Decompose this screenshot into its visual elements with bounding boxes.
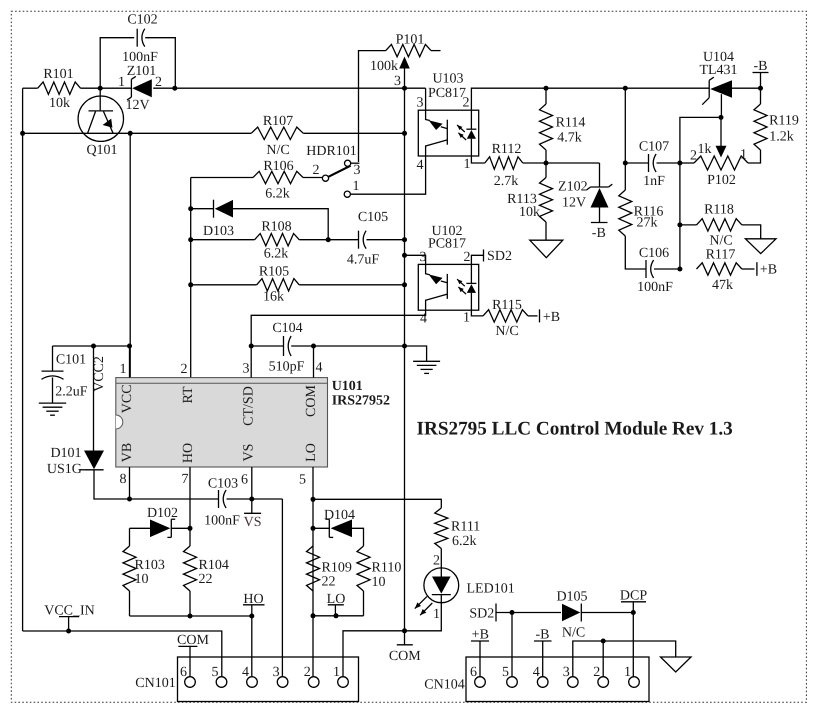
wire R119 bottom to P102 xyxy=(748,150,761,163)
wire R110 bottom lead xyxy=(363,591,365,616)
svg-text:1.2k: 1.2k xyxy=(769,130,794,145)
label U102 pin numbers xyxy=(420,250,471,327)
node junction R112/R113/R114 xyxy=(544,161,549,166)
label LED101 pin 2 xyxy=(433,554,440,569)
zener diode Z101 xyxy=(127,76,152,100)
net label COM flag (CN101 pin6) xyxy=(177,633,209,677)
svg-text:7: 7 xyxy=(182,472,189,487)
wire U103 pin2 to right bus xyxy=(471,88,709,110)
label U101 pin VS xyxy=(242,444,257,462)
wire C106 to R117 node xyxy=(654,268,680,270)
svg-text:4: 4 xyxy=(242,665,249,680)
node junction VB xyxy=(127,497,132,502)
wire VB row to C103 xyxy=(130,498,219,500)
connector CN101 pin 1 xyxy=(333,665,348,687)
svg-text:6: 6 xyxy=(241,473,248,488)
svg-text:N/C: N/C xyxy=(562,626,585,641)
wire R112 to R113 node xyxy=(523,162,600,164)
label U101 pin VB xyxy=(120,443,135,462)
connector CN101 body xyxy=(178,657,359,702)
wire CT/SD node row xyxy=(251,345,283,347)
P101 wiper arrow xyxy=(399,57,410,89)
ground (earth) below C101 xyxy=(39,403,66,415)
wire R104 bottom lead xyxy=(189,591,191,616)
svg-text:SD2: SD2 xyxy=(469,607,494,622)
wire U101 pin4 stub xyxy=(313,346,315,378)
connector HDR101 pin 2 xyxy=(322,175,328,181)
wire HDR pin1 to U103 pin4 xyxy=(350,156,425,194)
svg-text:HDR101: HDR101 xyxy=(306,144,357,159)
svg-text:R114: R114 xyxy=(556,116,586,131)
label R104 22 xyxy=(199,558,229,587)
label D104 xyxy=(324,508,355,523)
wire C103 to VS xyxy=(227,498,283,500)
wire P102 left lead xyxy=(680,162,694,164)
label D101 US1G xyxy=(47,446,82,477)
svg-text:R109: R109 xyxy=(322,561,352,576)
node junction VCC2/D101 xyxy=(91,344,96,349)
wire D102 to pin7 xyxy=(171,527,190,529)
label R115 N/C xyxy=(492,298,522,339)
svg-text:TL431: TL431 xyxy=(699,63,737,78)
node junction R104 bottom xyxy=(188,614,193,619)
wire left rail xyxy=(22,88,24,631)
svg-text:8: 8 xyxy=(120,472,127,487)
zener diode Z102 xyxy=(587,163,613,223)
wire D105 to DCP node xyxy=(581,612,633,614)
svg-text:3: 3 xyxy=(417,96,424,111)
wire R108 to C105 xyxy=(299,239,358,241)
svg-text:R101: R101 xyxy=(43,67,73,82)
svg-text:R115: R115 xyxy=(492,298,522,313)
wire RT rail vertical xyxy=(190,178,192,378)
svg-text:LO: LO xyxy=(304,443,319,462)
wire D103 row left xyxy=(191,208,214,210)
svg-text:12V: 12V xyxy=(562,196,586,211)
transistor U104 TL431 xyxy=(702,77,732,117)
capacitor C103 xyxy=(219,490,227,508)
resistor R104 xyxy=(184,546,197,591)
label R101 10k xyxy=(43,67,73,111)
svg-text:D101: D101 xyxy=(50,446,81,461)
svg-text:+B: +B xyxy=(543,310,560,325)
svg-text:CT/SD: CT/SD xyxy=(242,386,257,426)
P102 wiper arrow xyxy=(716,117,727,157)
wire D102 row left xyxy=(130,527,151,529)
node junction VCC2/pin1 xyxy=(127,344,132,349)
label Z102 12V xyxy=(558,180,588,211)
label U101 top pin numbers xyxy=(120,361,323,378)
wire COM pin row to ground xyxy=(314,346,427,361)
node junction R105 left xyxy=(188,282,193,287)
connector CN101 pin 6 xyxy=(180,665,195,687)
label U101 IRS27952 xyxy=(332,379,390,409)
svg-text:D102: D102 xyxy=(147,506,178,521)
svg-text:4.7k: 4.7k xyxy=(557,131,582,146)
wire D103 row right xyxy=(233,209,328,240)
wire LO to R111 xyxy=(313,499,441,508)
label U101 pin COM xyxy=(304,385,319,417)
svg-text:C103: C103 xyxy=(208,477,238,492)
resistor R112 xyxy=(485,157,523,169)
svg-text:5: 5 xyxy=(502,665,509,680)
svg-text:PC817: PC817 xyxy=(428,86,466,101)
label U103 pin numbers xyxy=(417,96,471,174)
resistor R111 xyxy=(435,508,448,549)
node junction C102-left/Q101 base xyxy=(98,86,103,91)
svg-text:6: 6 xyxy=(470,665,477,680)
resistor R114 xyxy=(540,104,553,150)
op-amp U103 optocoupler PC817 xyxy=(418,110,478,156)
svg-text:100k: 100k xyxy=(370,59,398,74)
svg-text:LED101: LED101 xyxy=(467,582,515,597)
svg-text:+B: +B xyxy=(760,263,777,278)
node junction bus/COM row xyxy=(402,628,407,633)
svg-text:47k: 47k xyxy=(712,278,733,293)
wire top bus left segment xyxy=(23,87,38,89)
svg-text:2: 2 xyxy=(690,149,697,164)
power flag +B right of R117 xyxy=(757,262,777,277)
connector CN101 pin 3 xyxy=(273,665,288,687)
diode D105 xyxy=(562,604,581,622)
wire D101 to VB row xyxy=(94,470,130,499)
wire R118 to chassis ground xyxy=(742,225,761,239)
svg-text:COM: COM xyxy=(304,385,319,417)
wire R103 top lead xyxy=(129,528,131,546)
resistor R106 xyxy=(253,171,303,183)
wire C101 top lead xyxy=(52,346,54,371)
capacitor C101 xyxy=(42,371,64,379)
label R112 2.7k xyxy=(492,142,522,189)
node junction P101 wiper at bus xyxy=(402,86,407,91)
label CN101 xyxy=(135,676,175,691)
wire R106 left to RT rail xyxy=(191,177,253,179)
svg-text:P101: P101 xyxy=(396,33,425,48)
resistor R115 xyxy=(483,310,528,322)
wire CN104 pin3 to ground row xyxy=(573,641,676,677)
wire HO bottom row xyxy=(130,615,252,617)
svg-text:2: 2 xyxy=(313,163,320,178)
svg-text:R108: R108 xyxy=(261,220,291,235)
transistor Q101 xyxy=(78,88,123,141)
label U102 PC817 xyxy=(428,224,466,252)
HDR101 lever xyxy=(329,166,351,177)
wire U103 pin1 to R112 xyxy=(471,156,484,163)
wire R101 to Z101 xyxy=(81,87,132,89)
svg-text:3: 3 xyxy=(273,665,280,680)
svg-text:100nF: 100nF xyxy=(204,514,240,529)
node junction C102-right xyxy=(172,86,177,91)
svg-text:R107: R107 xyxy=(263,114,293,129)
svg-text:U101: U101 xyxy=(332,379,363,394)
ground (earth) near bus xyxy=(413,361,440,373)
wire C102 loop left xyxy=(100,38,134,88)
label U104 TL431 xyxy=(699,50,737,78)
svg-text:Z102: Z102 xyxy=(558,180,588,195)
svg-text:100nF: 100nF xyxy=(122,50,158,65)
svg-text:IRS27952: IRS27952 xyxy=(332,394,390,409)
potentiometer P102 xyxy=(694,156,748,170)
svg-text:4: 4 xyxy=(417,158,424,173)
wire R116 column top xyxy=(624,88,626,190)
node junction D103 left xyxy=(188,206,193,211)
svg-text:U103: U103 xyxy=(432,72,463,87)
label U101 pin CT/SD xyxy=(242,386,257,426)
svg-text:R118: R118 xyxy=(704,203,734,218)
svg-text:1nF: 1nF xyxy=(643,174,665,189)
node junction R118 left xyxy=(677,222,682,227)
svg-text:D104: D104 xyxy=(324,508,355,523)
node junction R108 left xyxy=(188,237,193,242)
wire VS to CN101 pin3 xyxy=(281,499,283,677)
label R107 N/C xyxy=(263,114,293,158)
svg-text:6: 6 xyxy=(180,665,187,680)
op-amp U102 optocoupler PC817 xyxy=(418,264,478,310)
svg-text:1: 1 xyxy=(624,665,631,680)
wire C102 loop right xyxy=(145,38,175,88)
connector CN104 body xyxy=(466,657,649,702)
svg-text:N/C: N/C xyxy=(709,234,732,249)
svg-text:N/C: N/C xyxy=(495,324,518,339)
wire Q101 emitter row xyxy=(23,132,252,134)
connector CN101 pin 5 xyxy=(212,665,227,687)
svg-text:22: 22 xyxy=(199,572,213,587)
wire U102 pin1 to R115 xyxy=(471,310,483,316)
node junction C107 right xyxy=(677,161,682,166)
net label SD2 (CN104) xyxy=(469,604,496,622)
svg-text:C101: C101 xyxy=(56,353,86,368)
wire R105 row left xyxy=(191,284,257,286)
svg-text:3: 3 xyxy=(243,362,250,377)
wire U101 pin8 stub xyxy=(129,467,131,499)
node junction LO row xyxy=(311,497,316,502)
svg-text:1: 1 xyxy=(433,607,440,622)
resistor R109 xyxy=(307,546,320,591)
node junction VCC riser at emitter row xyxy=(128,131,133,136)
resistor R117 xyxy=(697,263,742,275)
label CN104 xyxy=(424,678,464,693)
svg-text:PC817: PC817 xyxy=(428,237,466,252)
wire C107 row left xyxy=(625,162,648,164)
label C104 510pF xyxy=(269,321,305,375)
wire R119 top stub xyxy=(760,88,762,104)
svg-text:5: 5 xyxy=(299,473,306,488)
node junction R105 at bus xyxy=(402,282,407,287)
svg-text:6.2k: 6.2k xyxy=(452,534,477,549)
svg-text:VS: VS xyxy=(244,515,262,530)
svg-text:1: 1 xyxy=(740,148,747,163)
net label VCC_IN xyxy=(44,604,95,632)
diode D104 xyxy=(325,519,352,537)
svg-text:2: 2 xyxy=(304,665,311,680)
label C102 value 100nF xyxy=(122,13,158,66)
svg-text:Z101: Z101 xyxy=(127,64,157,79)
wire R114 bottom stub xyxy=(545,150,547,163)
capacitor C102 xyxy=(137,29,145,47)
node junction D104 left xyxy=(311,526,316,531)
wire C107-right to C106-right column xyxy=(679,163,681,269)
connector CN104 pin 3 xyxy=(563,665,578,687)
label C107 1nF xyxy=(639,140,669,190)
resistor R113 xyxy=(540,178,553,223)
label U103 PC817 xyxy=(428,72,466,102)
connector CN101 pin 2 xyxy=(304,665,319,687)
svg-text:10k: 10k xyxy=(519,205,540,220)
svg-text:10k: 10k xyxy=(49,96,70,111)
svg-text:HO: HO xyxy=(181,443,196,463)
wire U102 pin3 to bus xyxy=(405,255,426,264)
label R119 1.2k xyxy=(769,114,799,145)
svg-text:CN104: CN104 xyxy=(424,678,464,693)
svg-text:VB: VB xyxy=(120,443,135,462)
svg-text:1k: 1k xyxy=(698,142,712,157)
wire R106 to HDR pin2 xyxy=(303,177,323,179)
wire R116 bottom xyxy=(625,236,645,269)
net label SD2 (U102) xyxy=(484,249,512,264)
node junction R116 top at bus xyxy=(623,86,628,91)
svg-text:1: 1 xyxy=(464,157,471,172)
svg-text:4.7uF: 4.7uF xyxy=(347,253,380,268)
LED LED101 xyxy=(415,568,459,615)
wire U102 pin4 to CT/SD xyxy=(251,310,425,346)
svg-text:C105: C105 xyxy=(358,210,388,225)
svg-text:2: 2 xyxy=(593,665,600,680)
wire P101 right stub xyxy=(431,50,441,52)
capacitor C106 xyxy=(646,260,654,278)
svg-text:1: 1 xyxy=(333,665,340,680)
svg-text:COM: COM xyxy=(389,649,421,664)
wire R115 to +B xyxy=(528,315,538,317)
svg-text:R112: R112 xyxy=(492,142,522,157)
svg-text:US1G: US1G xyxy=(47,462,82,477)
wire R108 row left xyxy=(191,239,255,241)
svg-text:Q101: Q101 xyxy=(86,143,117,158)
svg-text:C102: C102 xyxy=(127,13,157,28)
capacitor C107 xyxy=(649,154,657,172)
resistor R110 xyxy=(357,546,370,591)
wire R113 top stub xyxy=(545,163,547,178)
label HDR101 pins xyxy=(306,144,360,194)
svg-text:+B: +B xyxy=(472,628,489,643)
label U101 bottom pin numbers xyxy=(120,472,307,488)
svg-text:12V: 12V xyxy=(125,98,149,113)
wire CN104 pin5 column xyxy=(511,613,513,677)
svg-text:R104: R104 xyxy=(199,558,229,573)
node junction C107 left xyxy=(623,161,628,166)
svg-text:3: 3 xyxy=(563,665,570,680)
label R108 6.2k xyxy=(261,220,291,262)
label R116 27k xyxy=(634,205,664,231)
wire TL431 cathode to -B node xyxy=(732,87,761,89)
label R105 16k xyxy=(259,265,289,305)
wire U101 pin7 stub xyxy=(189,467,191,546)
connector CN104 pin 2 xyxy=(593,665,608,687)
label LED101 xyxy=(467,582,515,597)
label R117 47k xyxy=(706,248,736,294)
ground (open triangle) right of R118 xyxy=(745,239,776,254)
connector HDR101 pin 1 xyxy=(344,191,350,197)
svg-text:P102: P102 xyxy=(707,173,736,188)
svg-text:22: 22 xyxy=(322,575,336,590)
svg-text:1: 1 xyxy=(463,311,470,326)
label R114 4.7k xyxy=(556,116,586,146)
wire CN104 pin2 column xyxy=(602,641,604,677)
svg-text:2: 2 xyxy=(181,362,188,377)
wire R107 to bus xyxy=(303,132,404,134)
net label VS flag xyxy=(244,499,262,530)
node junction VCC_IN xyxy=(66,629,71,634)
svg-text:IRS2795 LLC Control Module Rev: IRS2795 LLC Control Module Rev 1.3 xyxy=(417,419,733,440)
connector HDR101 pin 3 xyxy=(345,160,351,166)
wire R117 to +B xyxy=(742,268,755,270)
svg-text:510pF: 510pF xyxy=(269,360,305,375)
diode D102 xyxy=(150,519,175,537)
connector CN104 pin 4 xyxy=(533,665,548,687)
label C103 100nF xyxy=(204,477,240,529)
wire C105 to bus xyxy=(367,239,405,241)
svg-text:R105: R105 xyxy=(259,265,289,280)
wire R103 bottom lead xyxy=(129,591,131,616)
wire VCC_IN row xyxy=(23,631,222,677)
label P101 100k pin 3 xyxy=(370,33,424,90)
svg-text:10: 10 xyxy=(135,572,149,587)
node junction TL431 ref xyxy=(719,115,724,120)
net label DCP xyxy=(620,589,647,613)
wire R111 to LED xyxy=(440,549,442,568)
node junction D102/R104 xyxy=(188,526,193,531)
ground (open triangle) CN104 xyxy=(661,657,692,672)
label R111 6.2k xyxy=(451,520,480,550)
node junction C105 at bus xyxy=(402,237,407,242)
op-amp U101 IRS27952 IC body xyxy=(116,378,328,467)
node junction SD2/CN104 pin5 xyxy=(510,610,515,615)
node junction LO bottom pin5 xyxy=(311,613,316,618)
power flag -B below Z102 xyxy=(591,223,608,242)
node junction C106/R117 xyxy=(677,267,682,272)
node junction HO corner xyxy=(249,614,254,619)
svg-text:R110: R110 xyxy=(372,561,402,576)
svg-text:100nF: 100nF xyxy=(637,280,673,295)
svg-text:-B: -B xyxy=(536,628,550,643)
wire U103 pin3 stub xyxy=(425,88,427,110)
label R103 10 xyxy=(135,558,165,587)
label Q101 xyxy=(86,143,117,158)
svg-text:2: 2 xyxy=(464,250,471,265)
svg-text:2: 2 xyxy=(463,96,470,111)
node junction COM pin4 xyxy=(311,344,316,349)
net label COM flag (bus) xyxy=(389,631,421,664)
wire DCP to CN104 pin1 xyxy=(632,613,634,677)
net label HO flag xyxy=(243,592,265,616)
label D105 N/C xyxy=(556,590,587,641)
resistor R116 xyxy=(619,190,632,236)
wire C104 to COM pin xyxy=(291,345,313,347)
svg-text:VCC2: VCC2 xyxy=(92,356,107,392)
wire C101 bottom lead xyxy=(52,378,54,404)
label U101 pin VCC xyxy=(120,384,135,413)
connector CN104 pin 5 xyxy=(502,665,517,687)
svg-text:2: 2 xyxy=(433,554,440,569)
resistor R101 xyxy=(38,82,81,94)
svg-text:1: 1 xyxy=(118,75,125,90)
svg-text:10: 10 xyxy=(372,575,386,590)
wire SD2 row xyxy=(496,612,561,614)
svg-text:N/C: N/C xyxy=(266,143,289,158)
net label VCC2 (vertical) xyxy=(92,356,107,392)
node junction VS xyxy=(249,497,254,502)
wire HDR pin3 to P101 xyxy=(351,162,360,164)
power flag +B (CN104 pin6) xyxy=(471,628,489,677)
